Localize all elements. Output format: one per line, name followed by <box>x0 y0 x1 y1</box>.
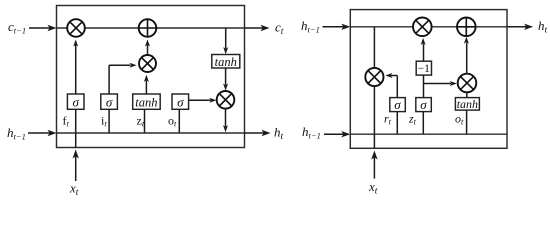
wire c_{t-1} input arrow <box>29 25 57 31</box>
sigma box r <box>390 97 406 112</box>
label r_t <box>384 112 392 127</box>
cell box U1 <box>57 6 245 148</box>
wire o gate right arrow into X3 <box>189 98 217 103</box>
wire c branch down arrow into tanh (top) <box>223 28 228 54</box>
multiply node X5 (on top h line) <box>413 18 432 37</box>
wire h_t output arrow (right diagram) <box>507 24 533 30</box>
svg-text:−1: −1 <box>418 63 430 75</box>
svg-text:σ: σ <box>394 97 401 112</box>
wire -1 up arrow into X5 <box>421 38 426 61</box>
wire h_t output arrow (left diagram) <box>245 130 271 136</box>
wire h_{t-1} bottom input arrow <box>324 131 350 137</box>
label x_t (right) <box>368 179 378 197</box>
add node P1 <box>139 19 157 37</box>
wire f gate up arrow into X1 <box>73 40 78 95</box>
sigma box o <box>172 94 189 110</box>
wire i gate down to h line <box>108 109 110 133</box>
wire z gate down to h line <box>144 109 146 133</box>
label x_t (left) <box>69 181 79 199</box>
wire tanh down arrow into X3 <box>223 68 228 91</box>
label f_t <box>63 114 70 129</box>
wire r gate down to h line <box>396 112 398 135</box>
label h_{t-1} (top right diagram) <box>301 18 320 34</box>
wire h line inside box <box>57 132 245 134</box>
label c_t <box>275 20 284 38</box>
svg-text:σ: σ <box>106 95 113 110</box>
wire top h line inside box <box>350 26 507 28</box>
wire i gate up and right into X2 <box>109 63 137 94</box>
label c_{t-1} <box>8 19 26 35</box>
wire h_{t-1} top input arrow <box>323 24 351 30</box>
wire tanh to X6 <box>466 92 468 97</box>
wire r gate up and left arrow into X4 <box>385 73 397 98</box>
wire h_{t-1} input arrow (left diagram) <box>28 130 57 136</box>
label h_{t-1} (bottom right diagram) <box>302 124 321 140</box>
label z_t <box>137 114 145 129</box>
wire X3 down arrow onto h line <box>223 109 228 133</box>
svg-text:tanh: tanh <box>215 55 237 69</box>
svg-text:σ: σ <box>177 95 184 110</box>
wire x_t input arrow (left) <box>73 150 79 182</box>
wire z gate up to -1 box <box>423 75 425 98</box>
label o_t <box>168 114 177 129</box>
wire bottom h line inside box <box>350 133 507 135</box>
tanh box (output side) <box>212 55 240 69</box>
multiply node X1 (forget gate product) <box>67 19 85 37</box>
sigma box f <box>67 94 84 110</box>
svg-text:σ: σ <box>420 97 427 112</box>
multiply node X3 (output product) <box>217 91 235 109</box>
wire z gate down to h line <box>422 112 424 135</box>
wire vertical branch through X4 down to box bottom <box>373 27 375 149</box>
multiply node X4 (reset product) <box>365 68 383 86</box>
wire z branch right arrow into X6 <box>424 81 457 86</box>
wire c line inside box <box>57 27 245 29</box>
wire z gate up arrow into X2 <box>144 75 149 94</box>
svg-text:tanh: tanh <box>457 97 478 111</box>
wire c_t output arrow <box>245 25 270 31</box>
wire f/x vertical through h line to box bottom <box>75 109 77 147</box>
tanh box z (bottom) <box>133 94 161 110</box>
sigma box z (right) <box>416 97 432 112</box>
cell box U2 <box>350 10 507 149</box>
label i_t <box>101 114 107 129</box>
wire tanh down to h line <box>466 110 468 134</box>
svg-text:σ: σ <box>72 95 79 110</box>
label h_t (right diagram) <box>538 18 548 36</box>
wire X6 up arrow into P2 <box>464 37 469 74</box>
svg-text:tanh: tanh <box>135 96 157 110</box>
label h_t (left diagram) <box>274 125 284 143</box>
wire x_t input arrow (right) <box>371 151 377 179</box>
wire o gate down to h line <box>178 109 180 133</box>
label z_t (right) <box>408 112 417 127</box>
multiply node X2 (input product) <box>139 55 156 72</box>
label h_{t-1} (left diagram) <box>7 125 26 141</box>
label o_t (right) <box>455 112 464 127</box>
sigma box i <box>101 94 118 110</box>
tanh box (right diagram) <box>455 97 479 111</box>
wire X2 up arrow into P1 <box>145 39 150 55</box>
add node P2 (on top h line) <box>457 18 476 37</box>
minus-one box <box>416 61 431 75</box>
multiply node X6 (candidate product) <box>458 74 477 93</box>
